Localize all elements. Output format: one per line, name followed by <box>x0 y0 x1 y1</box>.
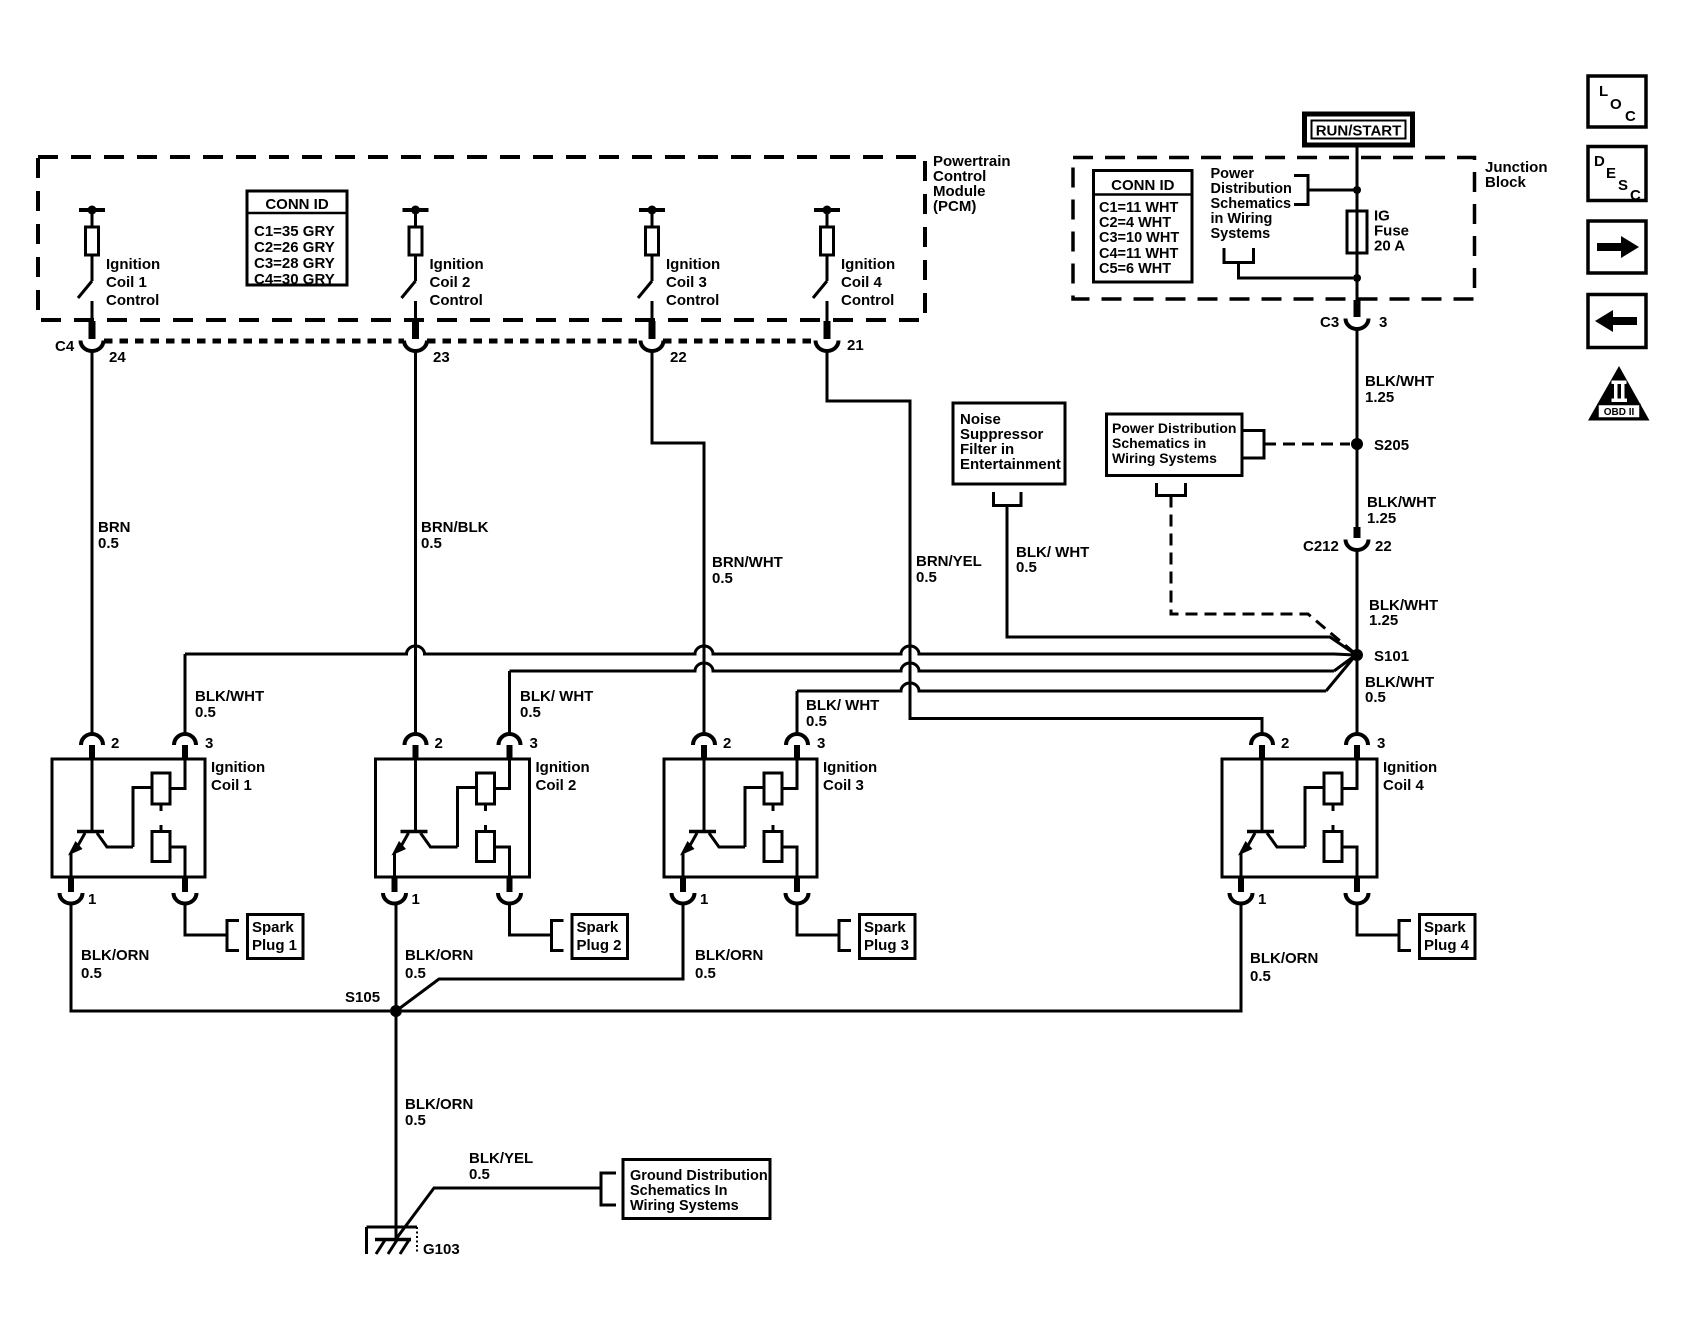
svg-text:Ignition: Ignition <box>536 759 590 776</box>
coil 4 core gap <box>1332 804 1335 832</box>
svg-text:L: L <box>1599 83 1608 100</box>
svg-text:3: 3 <box>205 735 213 752</box>
svg-text:Schematics: Schematics <box>1211 196 1292 212</box>
svg-text:BRN/WHT: BRN/WHT <box>712 554 783 571</box>
label BRN <box>98 519 131 552</box>
svg-text:Power Distribution: Power Distribution <box>1112 420 1236 436</box>
ignition coil 3 control driver in PCM <box>638 206 665 322</box>
ignition coil 4 label <box>1383 759 1437 794</box>
label BLK/WHT noise <box>1016 544 1089 576</box>
label BRN/BLK <box>421 519 489 552</box>
wire BLK/ORN coil1 pin1 <box>71 904 390 1012</box>
ground distribution box <box>623 1160 770 1219</box>
coil 4 secondary winding <box>1324 832 1357 878</box>
noise suppressor box <box>953 403 1065 484</box>
svg-text:C4: C4 <box>55 338 75 355</box>
svg-text:BLK/ORN: BLK/ORN <box>695 947 763 964</box>
wire BLK/ORN coil3 pin1 <box>396 904 683 1012</box>
svg-text:0.5: 0.5 <box>469 1166 490 1183</box>
wire coil 1 to spark plug <box>185 904 239 951</box>
svg-text:0.5: 0.5 <box>405 965 426 982</box>
spark plug 2 box <box>572 915 628 959</box>
coil 2 secondary winding <box>477 832 510 878</box>
connector C4 label <box>55 338 75 355</box>
svg-text:0.5: 0.5 <box>916 569 937 586</box>
ignition coil 3 box <box>664 759 817 877</box>
coil 1 pin 2 <box>81 734 119 759</box>
svg-text:BRN/YEL: BRN/YEL <box>916 553 982 570</box>
wire S205 to C212 <box>1356 444 1359 527</box>
coil 3 primary winding <box>764 759 797 804</box>
svg-text:CONN ID: CONN ID <box>1111 177 1175 194</box>
ignition coil 3 label <box>823 759 877 794</box>
junction block dashed border <box>1073 158 1475 300</box>
wire BRN/YEL coil4 control <box>827 350 1262 734</box>
svg-text:0.5: 0.5 <box>405 1112 426 1129</box>
icon back arrow <box>1588 295 1646 348</box>
power distribution box right bracket <box>1242 431 1264 459</box>
svg-text:C3=10 WHT: C3=10 WHT <box>1099 230 1179 246</box>
svg-text:0.5: 0.5 <box>1365 689 1386 706</box>
svg-text:BLK/ORN: BLK/ORN <box>1250 950 1318 967</box>
svg-text:Spark: Spark <box>252 919 294 936</box>
coil 2 pin 1 <box>383 877 420 908</box>
ignition coil 1 label <box>211 759 265 794</box>
ignition coil 1 control driver in PCM <box>78 206 105 322</box>
svg-text:C3=28 GRY: C3=28 GRY <box>254 255 335 272</box>
svg-text:C4=11 WHT: C4=11 WHT <box>1099 246 1179 262</box>
PCM connector C4 pin 21 <box>816 321 864 354</box>
svg-text:RUN/START: RUN/START <box>1316 123 1402 140</box>
svg-text:23: 23 <box>433 349 450 366</box>
connector C212 pin 22 <box>1303 527 1392 555</box>
wire coil 3 to spark plug <box>797 904 851 951</box>
connector C4 dotted boundary line <box>104 339 815 344</box>
svg-text:S205: S205 <box>1374 437 1409 454</box>
noise suppressor bracket <box>994 492 1022 506</box>
svg-text:1.25: 1.25 <box>1367 510 1396 527</box>
ignition coil 1 control label <box>106 256 160 309</box>
svg-text:D: D <box>1594 153 1605 170</box>
spark plug 1 box <box>248 915 304 959</box>
coil 2 pin 2 <box>405 734 443 759</box>
svg-text:Plug 4: Plug 4 <box>1424 937 1470 954</box>
wire BLK/ORN coil2 pin1 <box>395 904 398 1012</box>
svg-text:Spark: Spark <box>577 919 619 936</box>
svg-text:0.5: 0.5 <box>421 535 442 552</box>
wire coil 2 to spark plug <box>510 904 564 951</box>
svg-text:Coil 1: Coil 1 <box>106 274 147 291</box>
svg-text:3: 3 <box>1379 314 1387 331</box>
PCM module label <box>933 153 1011 215</box>
coil 4 pin 2 <box>1251 734 1289 759</box>
junction power distribution text <box>1211 166 1292 242</box>
svg-text:Coil 4: Coil 4 <box>1383 777 1424 794</box>
ignition coil 2 box <box>376 759 530 877</box>
wire BLK/YEL branch <box>396 1173 616 1239</box>
junction bottom bracket <box>1224 248 1353 278</box>
coil 2 pin 3 <box>499 734 538 759</box>
svg-text:Spark: Spark <box>1424 919 1466 936</box>
svg-text:C1=35 GRY: C1=35 GRY <box>254 223 335 240</box>
svg-text:Power: Power <box>1211 166 1255 182</box>
svg-text:Control: Control <box>666 292 719 309</box>
label BRN/WHT <box>712 554 783 587</box>
icon forward arrow <box>1588 221 1646 273</box>
splice S105 <box>345 989 402 1017</box>
wire BLK/WHT from noise suppressor <box>1007 506 1355 655</box>
svg-text:2: 2 <box>723 735 731 752</box>
coil 2 spark plug pin <box>498 877 521 904</box>
label BLK/ORN coil3 <box>695 947 763 982</box>
dashed wire to S205 <box>1264 443 1350 446</box>
svg-text:0.5: 0.5 <box>712 570 733 587</box>
svg-text:C: C <box>1630 187 1641 204</box>
svg-text:Ignition: Ignition <box>841 256 895 273</box>
svg-text:Plug 2: Plug 2 <box>577 937 622 954</box>
svg-text:C1=11 WHT: C1=11 WHT <box>1099 200 1179 216</box>
label BLK/WHT 1.25 c <box>1369 597 1438 629</box>
transistor Q2 <box>392 759 477 877</box>
label BLK/WHT 1.25 b <box>1367 494 1436 527</box>
ignition coil 2 control label <box>430 256 484 309</box>
coil 2 core gap <box>484 804 487 832</box>
fuse label <box>1374 208 1409 255</box>
svg-text:Ground Distribution: Ground Distribution <box>630 1168 768 1184</box>
coil 3 pin 1 <box>672 877 709 908</box>
svg-text:Wiring Systems: Wiring Systems <box>630 1198 739 1214</box>
ignition coil 2 control driver in PCM <box>402 206 429 322</box>
svg-text:Coil 2: Coil 2 <box>536 777 577 794</box>
svg-text:3: 3 <box>530 735 538 752</box>
svg-text:BLK/ORN: BLK/ORN <box>405 1096 473 1113</box>
coil 4 spark plug pin <box>1346 877 1369 904</box>
svg-text:2: 2 <box>111 735 119 752</box>
ignition coil 4 control driver in PCM <box>813 206 840 322</box>
svg-text:CONN ID: CONN ID <box>265 196 329 213</box>
icon LOC <box>1588 76 1646 127</box>
PCM module dashed border <box>38 157 925 320</box>
label BLK/WHT coil3 <box>806 697 879 730</box>
svg-text:0.5: 0.5 <box>520 704 541 721</box>
svg-text:0.5: 0.5 <box>81 965 102 982</box>
svg-text:2: 2 <box>435 735 443 752</box>
svg-text:3: 3 <box>817 735 825 752</box>
transistor Q4 <box>1238 759 1324 877</box>
svg-text:BLK/ORN: BLK/ORN <box>405 947 473 964</box>
coil 1 spark plug pin <box>174 877 197 903</box>
wire BLK/WHT bus from coil2 pin3 <box>510 656 1356 735</box>
svg-text:Wiring Systems: Wiring Systems <box>1112 450 1217 466</box>
junction node dot upper <box>1353 186 1361 194</box>
svg-text:S101: S101 <box>1374 648 1409 665</box>
junction CONN ID table <box>1094 171 1193 283</box>
dashed wire to S101 <box>1171 496 1355 654</box>
svg-text:24: 24 <box>109 349 126 366</box>
svg-text:Plug 3: Plug 3 <box>864 937 909 954</box>
wire BRN/BLK coil2 control <box>414 350 417 734</box>
wire BLK/WHT C3 to S205 <box>1356 328 1359 444</box>
wire BLK/ORN S105 to ground <box>395 1011 398 1239</box>
coil 3 secondary winding <box>764 832 797 878</box>
label BLK/ORN lower <box>405 1096 473 1129</box>
label BRN/YEL <box>916 553 982 586</box>
svg-text:21: 21 <box>847 337 864 354</box>
transistor Q1 <box>68 759 152 877</box>
icon OBD II triangle <box>1588 366 1650 421</box>
wire BLK/ORN coil4 pin1 <box>402 904 1241 1012</box>
junction block label <box>1485 159 1548 191</box>
svg-text:Ignition: Ignition <box>666 256 720 273</box>
splice S101 <box>1351 648 1409 665</box>
coil 1 secondary winding <box>152 832 185 878</box>
svg-text:C: C <box>1625 108 1636 125</box>
PCM CONN ID table <box>247 191 347 288</box>
svg-text:BLK/WHT: BLK/WHT <box>1367 494 1436 511</box>
svg-text:Plug 1: Plug 1 <box>252 937 297 954</box>
svg-text:Control: Control <box>430 292 483 309</box>
svg-text:BLK/ORN: BLK/ORN <box>81 947 149 964</box>
svg-text:Control: Control <box>841 292 894 309</box>
transistor Q3 <box>680 759 764 877</box>
ignition coil 1 box <box>52 759 205 877</box>
svg-text:0.5: 0.5 <box>1250 968 1271 985</box>
label BLK/ORN coil2 <box>405 947 473 982</box>
wire S101 to coil4 pin3 <box>1356 655 1359 734</box>
svg-text:BLK/ WHT: BLK/ WHT <box>520 688 593 705</box>
fuse IG 20A <box>1347 211 1367 253</box>
svg-text:1.25: 1.25 <box>1365 389 1394 406</box>
svg-text:BRN: BRN <box>98 519 131 536</box>
connector C3 pin 3 <box>1320 300 1387 331</box>
svg-text:1: 1 <box>412 891 420 908</box>
junction node dot lower <box>1353 274 1361 282</box>
svg-text:22: 22 <box>670 349 687 366</box>
svg-text:Coil 2: Coil 2 <box>430 274 471 291</box>
splice S205 <box>1351 437 1409 454</box>
wire BLK/WHT bus from coil1 pin3 <box>185 646 1355 734</box>
power distribution schematics box <box>1107 414 1243 476</box>
svg-text:C212: C212 <box>1303 538 1339 555</box>
svg-text:E: E <box>1606 165 1616 182</box>
svg-text:BLK/YEL: BLK/YEL <box>469 1150 533 1167</box>
ignition coil 4 control label <box>841 256 895 309</box>
coil 3 pin 2 <box>693 734 731 759</box>
coil 4 primary winding <box>1324 759 1357 804</box>
svg-text:Entertainment: Entertainment <box>960 456 1061 473</box>
PCM connector C4 pin 22 <box>641 321 687 366</box>
svg-text:0.5: 0.5 <box>695 965 716 982</box>
svg-text:Coil 3: Coil 3 <box>823 777 864 794</box>
svg-text:Coil 4: Coil 4 <box>841 274 882 291</box>
PCM connector C4 pin 23 <box>404 321 450 366</box>
label BLK/WHT 0.5 right <box>1365 674 1434 706</box>
svg-text:C4=30 GRY: C4=30 GRY <box>254 271 335 288</box>
coil 3 pin 3 <box>786 734 825 759</box>
label BLK/ORN coil1 <box>81 947 149 982</box>
RUN/START source box <box>1305 114 1413 145</box>
svg-text:C5=6 WHT: C5=6 WHT <box>1099 261 1171 277</box>
svg-text:OBD II: OBD II <box>1604 407 1635 418</box>
svg-text:0.5: 0.5 <box>806 713 827 730</box>
svg-text:C3: C3 <box>1320 314 1339 331</box>
ignition coil 3 control label <box>666 256 720 309</box>
coil 1 core gap <box>160 804 163 832</box>
svg-text:Distribution: Distribution <box>1211 181 1292 197</box>
svg-text:Ignition: Ignition <box>823 759 877 776</box>
coil 4 pin 3 <box>1346 734 1385 759</box>
svg-text:2: 2 <box>1281 735 1289 752</box>
ignition coil 4 box <box>1222 759 1377 877</box>
svg-text:Ignition: Ignition <box>430 256 484 273</box>
svg-text:BLK/ WHT: BLK/ WHT <box>806 697 879 714</box>
svg-text:(PCM): (PCM) <box>933 198 976 215</box>
coil 1 primary winding <box>152 759 185 804</box>
svg-text:1: 1 <box>700 891 708 908</box>
svg-text:1.25: 1.25 <box>1369 612 1398 629</box>
svg-text:BRN/BLK: BRN/BLK <box>421 519 489 536</box>
wire from RUN/START through fuse <box>1356 146 1359 300</box>
PCM connector C4 pin 24 <box>81 321 127 366</box>
icon DESC <box>1588 147 1646 205</box>
svg-text:22: 22 <box>1375 538 1392 555</box>
svg-text:O: O <box>1610 96 1622 113</box>
svg-text:S105: S105 <box>345 989 380 1006</box>
svg-text:0.5: 0.5 <box>1016 559 1037 576</box>
svg-text:Systems: Systems <box>1211 226 1271 242</box>
svg-text:Ignition: Ignition <box>106 256 160 273</box>
coil 1 pin 3 <box>174 734 213 759</box>
wire coil 4 to spark plug <box>1357 904 1411 951</box>
wire BRN coil1 control <box>91 350 94 734</box>
coil 3 spark plug pin <box>786 877 809 904</box>
svg-text:Spark: Spark <box>864 919 906 936</box>
ignition coil 2 label <box>536 759 590 794</box>
label BLK/WHT coil2 <box>520 688 593 721</box>
wire BRN/WHT coil3 control <box>652 350 704 734</box>
wire BLK/WHT bus from coil3 pin3 <box>797 656 1355 734</box>
svg-text:3: 3 <box>1377 735 1385 752</box>
power distribution box bottom bracket <box>1157 483 1186 496</box>
coil 1 pin 1 <box>60 877 97 908</box>
spark plug 4 box <box>1420 915 1476 959</box>
svg-text:Schematics In: Schematics In <box>630 1183 728 1199</box>
svg-text:Control: Control <box>106 292 159 309</box>
label BLK/WHT coil1 <box>195 688 264 721</box>
svg-text:Schematics in: Schematics in <box>1112 435 1206 451</box>
svg-text:Block: Block <box>1485 174 1527 191</box>
svg-text:0.5: 0.5 <box>98 535 119 552</box>
coil 3 core gap <box>772 804 775 832</box>
svg-text:0.5: 0.5 <box>195 704 216 721</box>
svg-text:BLK/WHT: BLK/WHT <box>195 688 264 705</box>
svg-text:Coil 1: Coil 1 <box>211 777 252 794</box>
svg-text:in Wiring: in Wiring <box>1211 211 1273 227</box>
wire C212 to S101 <box>1356 549 1359 655</box>
svg-text:G103: G103 <box>423 1241 460 1258</box>
ground G103 <box>367 1227 460 1258</box>
svg-text:Ignition: Ignition <box>211 759 265 776</box>
svg-text:20 A: 20 A <box>1374 238 1405 255</box>
junction power distribution bracket <box>1294 176 1357 205</box>
coil 4 pin 1 <box>1230 877 1267 908</box>
coil 2 primary winding <box>477 759 510 804</box>
svg-text:C2=4 WHT: C2=4 WHT <box>1099 215 1171 231</box>
label BLK/YEL <box>469 1150 533 1183</box>
svg-text:BLK/WHT: BLK/WHT <box>1365 373 1434 390</box>
spark plug 3 box <box>860 915 916 959</box>
svg-text:C2=26 GRY: C2=26 GRY <box>254 239 335 256</box>
label BLK/WHT 1.25 a <box>1365 373 1434 406</box>
svg-text:S: S <box>1618 177 1628 194</box>
svg-text:1: 1 <box>1258 891 1266 908</box>
label BLK/ORN coil4 <box>1250 950 1318 985</box>
svg-text:Ignition: Ignition <box>1383 759 1437 776</box>
svg-text:1: 1 <box>88 891 96 908</box>
svg-text:Coil 3: Coil 3 <box>666 274 707 291</box>
